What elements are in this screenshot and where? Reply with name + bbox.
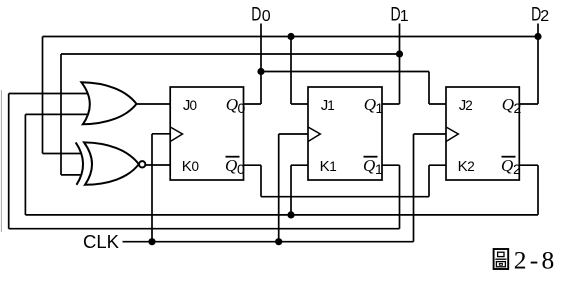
svg-text:0: 0: [237, 161, 245, 177]
svg-text:Q: Q: [501, 156, 513, 175]
svg-text:CLK: CLK: [83, 231, 120, 252]
svg-text:2: 2: [513, 161, 521, 177]
svg-text:2: 2: [540, 8, 549, 25]
svg-text:Q: Q: [363, 156, 375, 175]
svg-text:0: 0: [192, 159, 200, 174]
svg-text:2: 2: [467, 159, 475, 174]
svg-text:Q: Q: [225, 156, 237, 175]
svg-text:0: 0: [262, 8, 271, 25]
svg-text:K: K: [458, 158, 468, 175]
svg-text:1: 1: [376, 100, 384, 116]
svg-text:Q: Q: [226, 95, 238, 114]
svg-text:0: 0: [190, 98, 198, 113]
svg-text:2: 2: [514, 100, 522, 116]
svg-text:K: K: [182, 158, 192, 175]
svg-text:1: 1: [400, 8, 409, 25]
svg-text:D: D: [251, 3, 261, 25]
svg-text:K: K: [320, 158, 330, 175]
svg-text:Q: Q: [364, 95, 376, 114]
svg-text:Q: Q: [502, 95, 514, 114]
svg-text:1: 1: [329, 159, 337, 174]
svg-text:1: 1: [327, 98, 335, 113]
svg-text:0: 0: [238, 100, 246, 116]
svg-text:2: 2: [465, 98, 473, 113]
svg-text:2-8: 2-8: [514, 245, 558, 274]
svg-text:1: 1: [375, 161, 383, 177]
